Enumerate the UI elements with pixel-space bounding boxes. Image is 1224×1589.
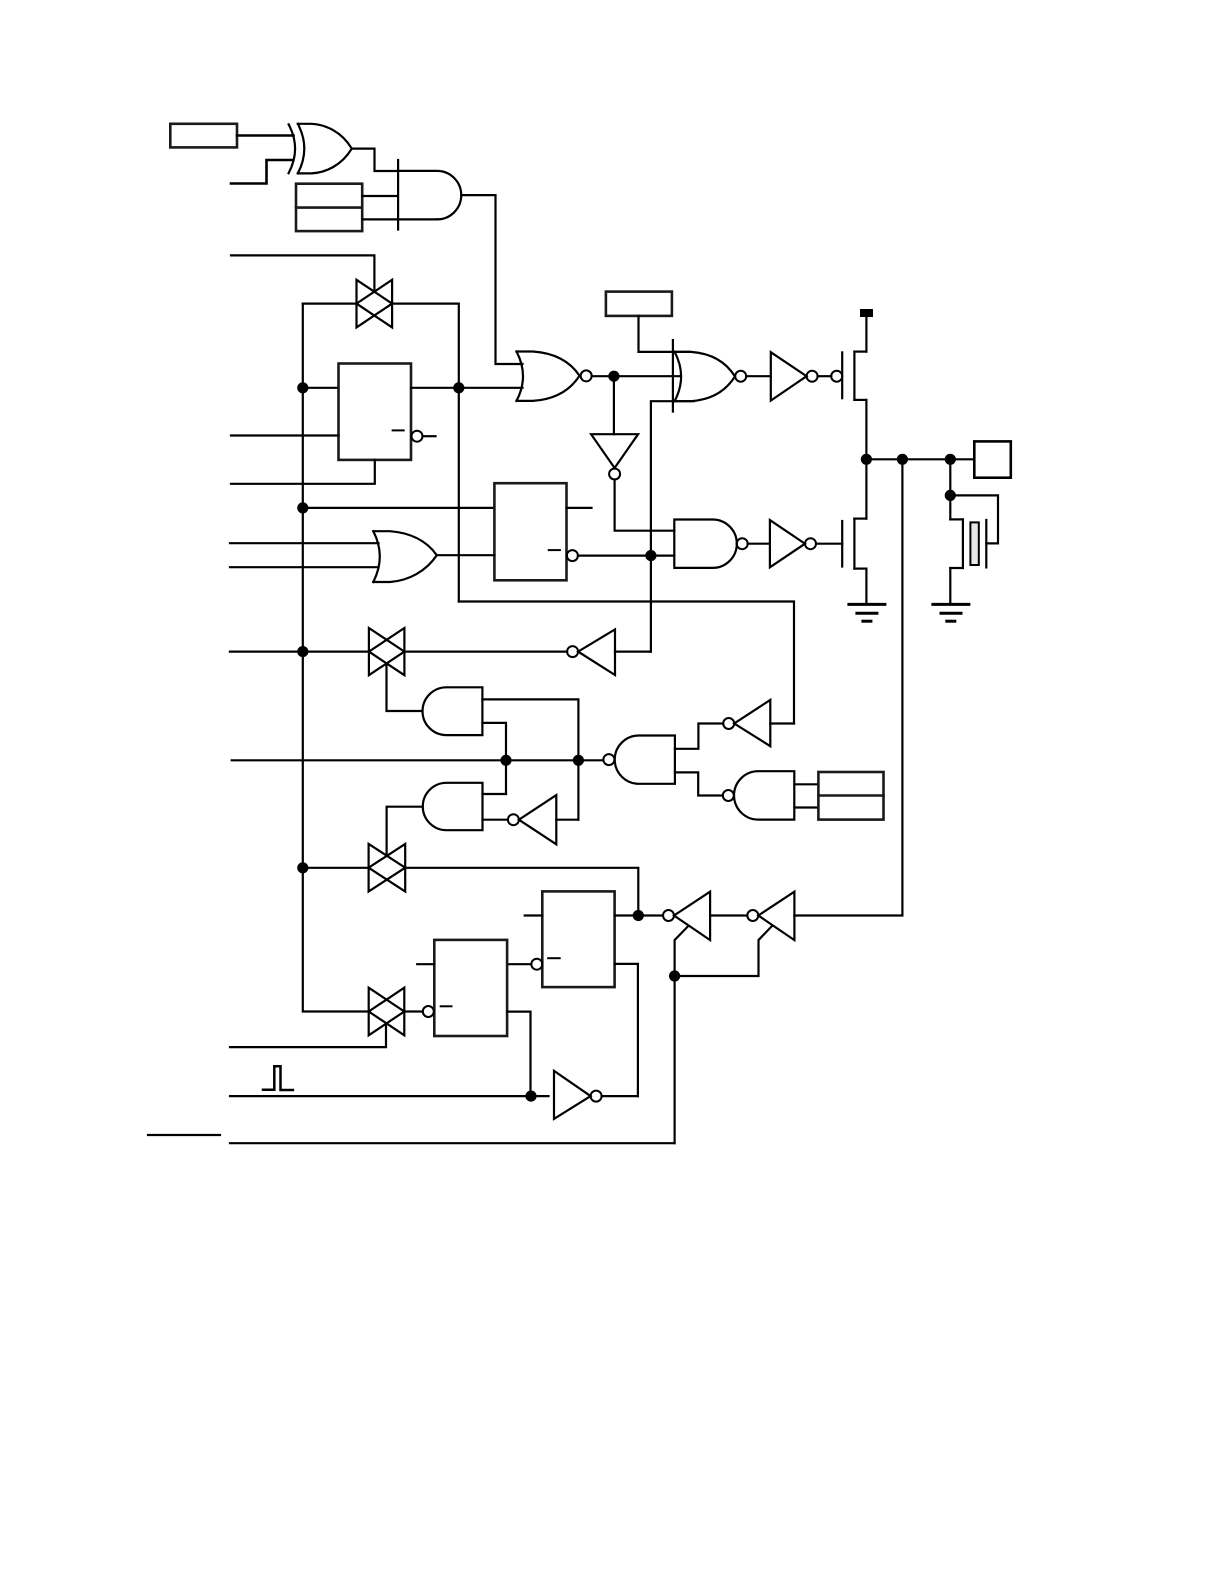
nor-gate U4	[517, 352, 592, 401]
wire U2 output to NOR U5 top input	[461, 195, 522, 364]
wire U19 output to TG3 control	[387, 807, 423, 856]
U21 top-left stub	[525, 914, 543, 916]
nand-gate U16 (left-facing)	[603, 736, 675, 784]
wire IN2 upper output	[362, 195, 397, 197]
wire U24 lower-right pin	[507, 1012, 530, 1097]
wire load vertical	[949, 459, 951, 519]
node dot TG3 input	[298, 863, 307, 872]
wire U9 output to inverter U11	[748, 543, 770, 545]
wire TG1 control	[231, 255, 374, 291]
wire clock input	[230, 1095, 549, 1097]
MOS capacitor C1	[950, 519, 986, 568]
node dot U3 output junction	[454, 383, 463, 392]
inverter U20 (left-facing)	[508, 795, 556, 844]
node dot enable taps	[670, 972, 679, 981]
pulse symbol	[263, 1066, 293, 1090]
nand-gate U18 (left-facing)	[723, 771, 795, 819]
wire U17 input from feedback	[770, 722, 794, 724]
node dot U8 output junction	[646, 551, 655, 560]
wire U19 input 2 from inverter U20	[483, 819, 508, 821]
wire U4 output	[592, 375, 679, 377]
bus vertical wire x=302.8	[303, 304, 369, 1012]
xor-gate U1	[289, 124, 352, 174]
wire U3 output to NOR U4	[411, 387, 523, 389]
wire U13 input 2	[482, 723, 506, 794]
wire TG2 right to inverter U12 bubble	[404, 650, 567, 652]
input box IN1	[170, 124, 237, 148]
inverter U12 (left-facing)	[567, 629, 615, 675]
output box OUT1	[974, 441, 1011, 477]
transistor Q1 PMOS	[842, 352, 866, 400]
U3 inverted output bubble	[412, 431, 423, 442]
wire XOR output to AND U2	[352, 149, 397, 171]
U8 top-right stub	[567, 507, 592, 509]
wire U25 output up to U21 lower pin	[602, 1095, 638, 1097]
U3 inverted output stub	[423, 435, 436, 437]
node dot feedback tap	[898, 455, 907, 464]
inverter U6	[771, 352, 818, 400]
wire to FF2 input	[303, 507, 495, 509]
U8 inverted output bubble	[567, 550, 578, 561]
ground symbol 1	[849, 604, 885, 621]
or-gate U10	[373, 531, 437, 582]
wire U18 input 1	[794, 783, 818, 785]
wire TG3 right to FF3 output node	[405, 868, 638, 916]
wire IN3 to NOR U5 top input	[639, 316, 691, 352]
nor-gate U5	[673, 340, 746, 411]
wire U12 input	[615, 650, 651, 652]
node dot FF1 input	[298, 383, 307, 392]
node dot FF2 input	[298, 503, 307, 512]
wire U19 input 1	[483, 793, 507, 795]
wire U21 lower pin	[615, 964, 638, 1096]
node dot clock junction	[527, 1092, 536, 1101]
flip-flop U3	[339, 364, 412, 460]
wire U13 input 1	[482, 699, 578, 819]
wire U3 second input	[231, 434, 339, 436]
inverter U23 (left-facing)	[747, 892, 794, 940]
wire TG1 right to vertical	[392, 304, 459, 602]
wire TG2 control to AND U13 output	[387, 664, 423, 712]
transistor Q2 NMOS	[842, 519, 866, 569]
wire long feedback y=601.5	[459, 602, 794, 724]
node dot load tap	[946, 455, 955, 464]
wire U23 enable tap	[675, 926, 772, 976]
PMOS gate bubble	[831, 371, 842, 382]
wire U16 input 1 from inverter U17	[675, 724, 723, 749]
wire U18 input 2	[794, 806, 818, 808]
wire into TG3	[303, 867, 369, 869]
and-gate U19 (left-facing)	[423, 783, 483, 830]
node dot Q1/Q2 drains	[862, 455, 871, 464]
wire IN1 to XOR top input	[237, 134, 294, 137]
flip-flop U21	[542, 891, 614, 987]
U8 inverted output overbar	[549, 549, 560, 551]
input box IN3	[606, 292, 672, 316]
inverter U11	[770, 520, 816, 567]
wire U10 output to U8	[437, 554, 495, 556]
wire IN2 lower output	[362, 218, 437, 220]
ground symbol 2	[933, 604, 969, 621]
node dot U21 output junction	[634, 911, 643, 920]
node dot TG2 input	[298, 647, 307, 656]
transmission gate TG1	[357, 280, 393, 328]
inverter U17 (left-facing)	[723, 700, 770, 746]
wire U16 input 2 from NAND U18	[675, 772, 723, 795]
transmission gate TG2	[369, 628, 405, 675]
wire U21 output	[615, 914, 663, 916]
wire U8 output to NAND U9	[578, 554, 674, 556]
wire bottom enable	[230, 1142, 675, 1144]
wire FF4 output to U21	[507, 963, 531, 965]
transmission gate TG3	[369, 844, 406, 892]
wire U10 input 1	[230, 542, 379, 544]
nand-gate U9	[674, 520, 747, 568]
and-gate U2	[398, 160, 461, 230]
wire into TG1 left	[303, 303, 357, 305]
wire Q1 drain to output node	[865, 400, 867, 459]
wire load gate tap	[950, 495, 998, 543]
wire U6 to PMOS gate bubble	[818, 375, 832, 377]
U24 top-left stub	[417, 963, 434, 965]
and-gate U13 (left-facing)	[423, 687, 483, 735]
wire U7 output to NAND U9 top input	[615, 480, 675, 531]
wire U22 enable tap	[675, 926, 688, 1143]
inverter U22 (left-facing)	[663, 892, 710, 940]
wire U5 output to inverter U6	[746, 375, 771, 377]
wire to FF1 input	[303, 387, 339, 389]
wire Q2 source to ground	[865, 569, 867, 604]
wire TG4 control	[230, 1023, 386, 1047]
flip-flop U24	[434, 940, 507, 1036]
wire Q2 drain to output node	[865, 459, 867, 518]
node dot load gate tap	[946, 491, 955, 500]
U24 inverted input overbar	[441, 1005, 452, 1007]
wire U22 to U23	[710, 914, 747, 916]
flip-flop U8	[494, 483, 566, 580]
wire U3 bottom pin	[231, 460, 375, 484]
transmission gate TG4	[369, 988, 405, 1036]
VDD symbol	[860, 309, 873, 317]
node dot bus/U15 input	[574, 756, 583, 765]
wire XOR lower input	[231, 160, 293, 184]
inverter U25	[554, 1071, 602, 1119]
U24 inverted input bubble	[423, 1006, 434, 1017]
input box IN4	[818, 772, 883, 820]
wire U10 input 2	[230, 566, 379, 568]
wire TG4 right to U24 input bubble	[404, 1010, 423, 1012]
input box IN2	[296, 184, 362, 231]
inverter-down U7	[591, 376, 638, 479]
output node wire	[866, 458, 974, 460]
wire U23 input from feedback node	[794, 459, 902, 915]
wire into TG2	[230, 650, 369, 652]
U21 inverted input overbar	[548, 957, 560, 959]
wire U20 input	[556, 819, 578, 821]
wire bus y=760.3	[232, 759, 604, 761]
wire C1 bottom to ground	[949, 568, 951, 604]
wire VDD to PMOS source	[865, 317, 867, 352]
node dot bus/U14 input	[502, 756, 511, 765]
U3 inverted output overbar	[393, 429, 404, 431]
short floating line	[148, 1134, 220, 1136]
node dot U4 output junction	[609, 372, 618, 381]
U21 inverted input bubble	[531, 959, 542, 970]
wire U11 output to NMOS gate	[816, 543, 842, 545]
wire NOR U5 bottom input vertical	[651, 401, 694, 651]
